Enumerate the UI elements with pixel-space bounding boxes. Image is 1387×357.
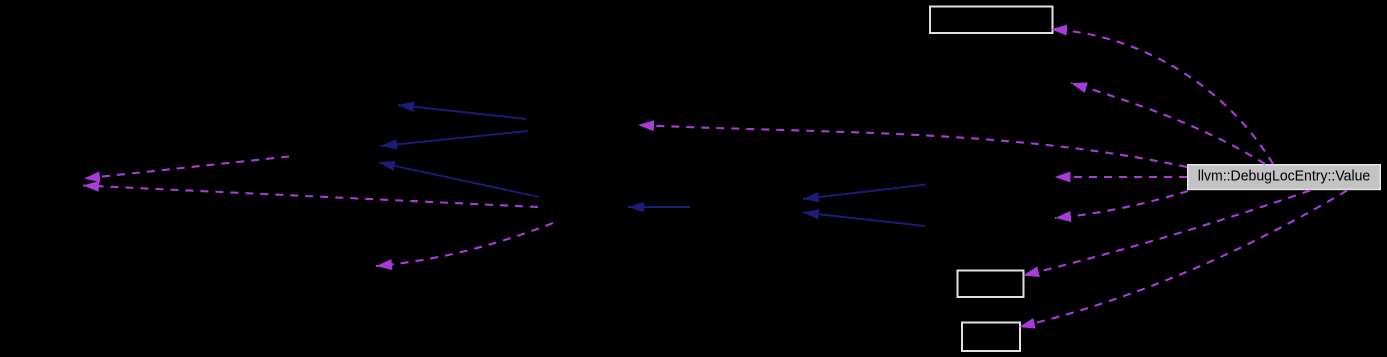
svg-text:llvm::DebugLocEntry::Value: llvm::DebugLocEntry::Value — [1198, 169, 1371, 185]
main node llvm::DebugLocEntry::Value — [1188, 165, 1381, 190]
usage edge (dashed) 9 — [1023, 191, 1310, 276]
usage edge (dashed) 8 — [1055, 191, 1188, 218]
node box lower-right 1 (empty dark node) — [958, 271, 1024, 298]
usage edge (dashed) 5 — [1051, 29, 1273, 164]
inheritance edge (solid) c — [379, 163, 539, 198]
inheritance edge (solid) f — [803, 213, 925, 227]
inheritance edge (solid) a — [398, 105, 526, 119]
inheritance edge (solid) b — [381, 131, 528, 146]
usage edge (dashed) 3 — [376, 223, 553, 266]
usage edge (dashed) 2 — [83, 186, 538, 208]
node box top-right (empty dark node) — [930, 7, 1053, 34]
inheritance edge (solid) d — [628, 206, 690, 208]
usage edge (dashed) 7 — [1055, 176, 1188, 178]
usage edge (dashed) 4 — [638, 125, 1187, 167]
usage edge (dashed) 10 — [1019, 191, 1347, 328]
usage edge (dashed) 6 — [1071, 83, 1265, 164]
node box lower-right 2 (empty dark node) — [962, 323, 1020, 352]
usage edge (dashed) 1 — [84, 157, 289, 179]
inheritance edge (solid) e — [803, 185, 926, 200]
